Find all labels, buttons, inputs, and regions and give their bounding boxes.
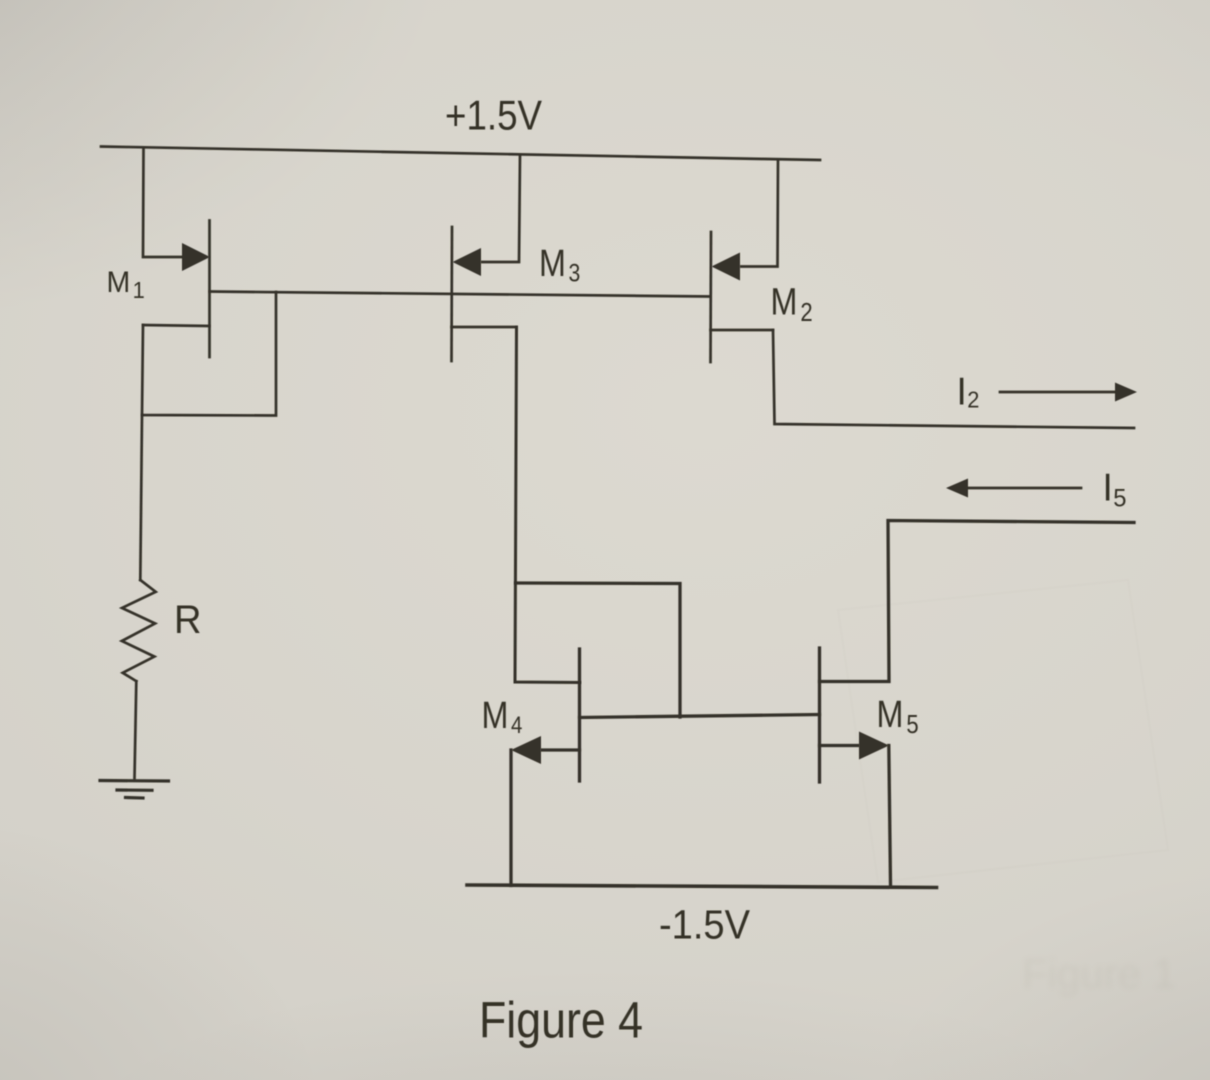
wire: branch to M4/M5 gates: [516, 583, 680, 717]
wire: node to resistor: [140, 415, 142, 580]
transistor M5 source arrowhead: [859, 732, 889, 760]
I2 annotation arrowhead: [1115, 383, 1137, 402]
wire: M3 source drop from rail: [482, 155, 520, 262]
wire: M4 source lead: [542, 748, 580, 751]
transistor M1 source arrowhead: [182, 243, 210, 271]
wire: gate line M4-M5: [580, 715, 820, 718]
I5 annotation arrowhead: [946, 479, 968, 498]
resistor R zigzag: [122, 580, 156, 681]
svg-text:Figure 4: Figure 4: [479, 992, 643, 1049]
svg-text:M2: M2: [771, 281, 813, 327]
wire: gate bus M1-M3-M2: [210, 292, 711, 297]
wire: M3 drain drop to M4: [515, 327, 580, 683]
I5 annotation arrow line: [967, 487, 1081, 490]
transistor M2 channel bar: [709, 232, 712, 362]
transistor M2 source arrowhead: [712, 253, 741, 281]
transistor M3 source arrowhead: [453, 248, 482, 276]
wire: resistor to ground: [135, 681, 137, 778]
ghost show-through rectangle: [838, 580, 1168, 882]
wire: M1 source drop from rail: [143, 148, 184, 257]
transistor M3 channel bar: [450, 227, 453, 361]
transistor M4 channel bar: [578, 649, 581, 781]
transistor M4 source arrowhead: [511, 736, 541, 764]
wire: M2 drain lead: [711, 329, 774, 332]
svg-text:M4: M4: [482, 695, 523, 739]
svg-text:Figure 1: Figure 1: [1022, 950, 1176, 997]
svg-text:-1.5V: -1.5V: [659, 901, 751, 947]
wire: I5 input to M5 drain: [820, 521, 1135, 682]
wire: M3 drain lead: [452, 326, 517, 329]
transistor M5 channel bar: [818, 648, 821, 782]
wire: +1.5V top rail: [101, 147, 820, 161]
svg-text:M1: M1: [107, 266, 145, 303]
transistor M1 channel bar: [208, 221, 211, 358]
svg-text:+1.5V: +1.5V: [445, 92, 542, 139]
svg-text:R: R: [174, 598, 202, 642]
wire: M2 source drop from rail: [741, 160, 778, 267]
wire: M5 source drop to rail: [889, 746, 891, 885]
wire: -1.5V bottom rail: [467, 885, 937, 888]
wire: M1 drain lead: [143, 325, 210, 326]
svg-text:M3: M3: [539, 243, 580, 287]
I2 annotation arrow line: [1000, 391, 1118, 394]
wire: M2 drain to I2 output: [773, 330, 1134, 428]
svg-text:M5: M5: [877, 694, 919, 740]
wire: M1 gate-drain loop: [142, 292, 276, 416]
ground symbol: [100, 779, 169, 783]
svg-text:I5: I5: [1103, 467, 1127, 513]
wire: M5 source lead: [820, 744, 859, 747]
svg-text:I2: I2: [957, 371, 980, 414]
wire: M4 source drop to rail: [509, 750, 512, 886]
